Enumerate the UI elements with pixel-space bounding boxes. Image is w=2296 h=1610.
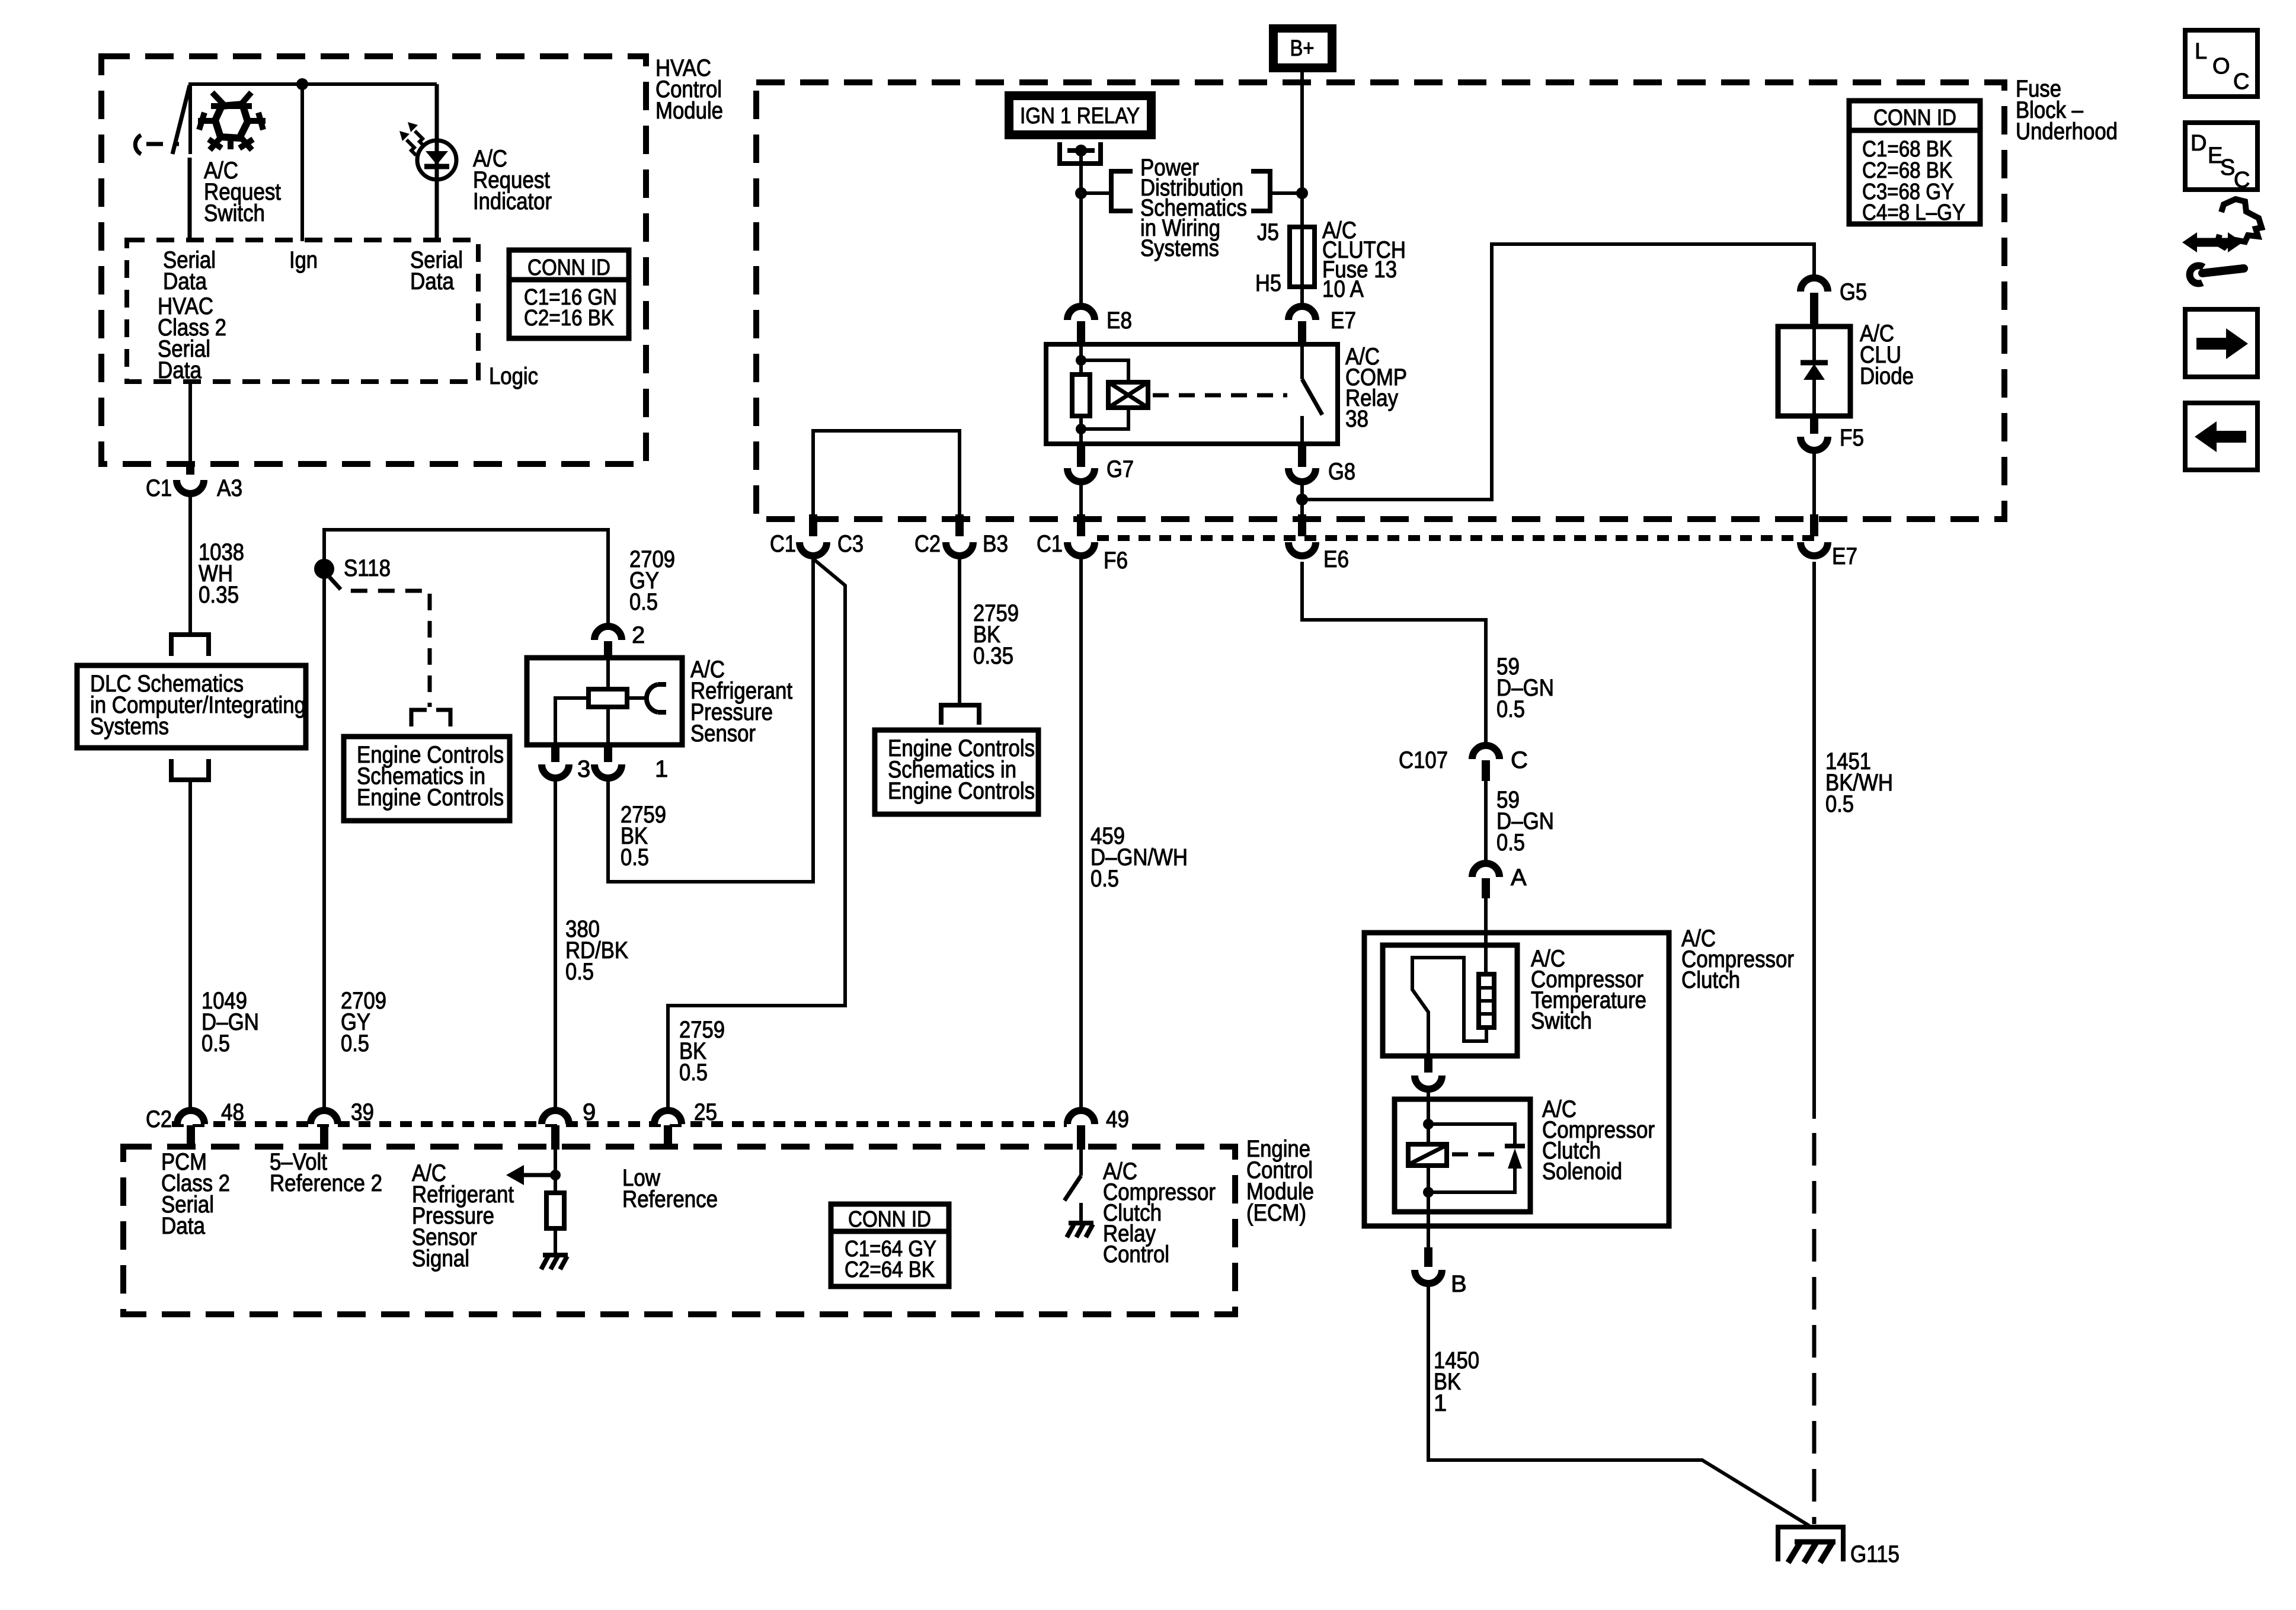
wire 459 D-GN/WH 0.5 bbox=[1081, 559, 1188, 1109]
svg-text:A: A bbox=[1511, 865, 1527, 891]
svg-text:Module: Module bbox=[655, 98, 723, 124]
icon forward arrow bbox=[2185, 309, 2257, 377]
svg-text:38: 38 bbox=[1345, 406, 1368, 432]
svg-text:0.5: 0.5 bbox=[1825, 791, 1854, 817]
svg-text:CONN ID: CONN ID bbox=[527, 255, 610, 280]
svg-text:C107: C107 bbox=[1399, 747, 1448, 773]
node Serial Data labels bbox=[158, 247, 463, 383]
connector C1 C3 bbox=[770, 514, 864, 557]
wire 59 D-GN 0.5 (C107 to A) bbox=[1486, 781, 1554, 863]
svg-text:C2: C2 bbox=[146, 1106, 172, 1132]
wire solenoid to B bbox=[1427, 1212, 1430, 1247]
svg-text:Reference 2: Reference 2 bbox=[270, 1170, 382, 1196]
svg-text:C: C bbox=[1511, 747, 1528, 773]
svg-text:H5: H5 bbox=[1255, 270, 1281, 296]
wire serial data down bbox=[188, 382, 192, 467]
wire F5 to E7 bbox=[1812, 450, 1816, 517]
wire 2759 BK 0.35 (B3) bbox=[960, 559, 1019, 705]
wire 2709 GY 0.5 (sensor pin 2) bbox=[629, 546, 675, 615]
svg-text:C3: C3 bbox=[837, 531, 864, 557]
wire 1450 BK 1 bbox=[1428, 1283, 1809, 1526]
svg-text:J5: J5 bbox=[1257, 219, 1279, 245]
svg-text:O: O bbox=[2212, 54, 2230, 79]
icon DESC bbox=[2185, 123, 2257, 193]
svg-text:L: L bbox=[2195, 39, 2207, 64]
IGN 1 relay output contact bbox=[1060, 142, 1101, 164]
connector pin 39 bbox=[311, 1099, 374, 1150]
wire top bus in HVAC bbox=[190, 84, 437, 154]
svg-text:Systems: Systems bbox=[90, 713, 169, 740]
svg-text:49: 49 bbox=[1106, 1106, 1129, 1132]
svg-text:G7: G7 bbox=[1107, 456, 1134, 482]
node junction G8/diode branch bbox=[1296, 494, 1308, 505]
svg-text:48: 48 bbox=[221, 1099, 244, 1125]
svg-text:S: S bbox=[2220, 155, 2235, 180]
connector (temp switch to solenoid) bbox=[1415, 1056, 1442, 1089]
svg-text:F6: F6 bbox=[1104, 548, 1128, 574]
connector B bbox=[1415, 1247, 1467, 1297]
svg-text:B: B bbox=[1451, 1271, 1467, 1297]
wire into solenoid bbox=[1427, 1089, 1430, 1145]
wire 1049 D-GN 0.5 bbox=[190, 780, 259, 1109]
svg-text:C1: C1 bbox=[146, 475, 172, 501]
connector pin 2 bbox=[594, 622, 645, 659]
svg-text:IGN 1 RELAY: IGN 1 RELAY bbox=[1020, 104, 1140, 129]
icon diagnostic pointer with wrench bbox=[2182, 199, 2262, 283]
connector pin 1 bbox=[594, 745, 668, 782]
svg-text:Control: Control bbox=[1103, 1241, 1169, 1267]
svg-text:Switch: Switch bbox=[1531, 1008, 1592, 1034]
ECM pin 9 internal circuit bbox=[506, 1150, 564, 1254]
svg-text:Diode: Diode bbox=[1860, 363, 1914, 389]
Engine Controls box (right) bbox=[875, 730, 1038, 814]
svg-text:CONN ID: CONN ID bbox=[1873, 105, 1956, 130]
ECM internal labels bbox=[161, 1149, 718, 1272]
CONN ID table HVAC bbox=[509, 250, 629, 338]
Fuse Block Underhood box bbox=[756, 76, 2118, 519]
svg-text:Underhood: Underhood bbox=[2016, 119, 2118, 145]
connector G5 bbox=[1801, 278, 1867, 327]
svg-text:C: C bbox=[2234, 168, 2250, 193]
connector pin 9 bbox=[542, 1099, 596, 1150]
wire B+ down bbox=[1300, 72, 1304, 227]
svg-text:Data: Data bbox=[410, 268, 455, 295]
wire 2709 GY 0.5 down to pin 39 bbox=[324, 569, 386, 1109]
ground (relay control) bbox=[1067, 1223, 1093, 1237]
relay coil box symbol bbox=[1108, 382, 1148, 408]
ground (ECM pin 9) bbox=[541, 1255, 568, 1269]
A/C compressor temperature switch bbox=[1383, 945, 1646, 1056]
A/C CLU Diode bbox=[1778, 321, 1914, 416]
connector F5 bbox=[1801, 416, 1864, 451]
svg-text:G5: G5 bbox=[1840, 279, 1867, 305]
fuse A/C CLUTCH Fuse 13 10A bbox=[1255, 217, 1406, 302]
wire C3 diagonal branch 2759 bbox=[668, 559, 845, 1109]
connector E8 bbox=[1067, 306, 1132, 344]
svg-text:Clutch: Clutch bbox=[1681, 967, 1740, 993]
connector C2 pin 48 bbox=[146, 1099, 244, 1150]
wire 2759 BK 0.5 (pin 1 to C3) bbox=[608, 559, 813, 882]
svg-text:B3: B3 bbox=[983, 531, 1008, 557]
svg-text:F5: F5 bbox=[1840, 425, 1864, 451]
svg-text:Switch: Switch bbox=[204, 200, 265, 226]
svg-text:D: D bbox=[2191, 131, 2207, 156]
Engine Controls box (left) bbox=[344, 737, 510, 821]
node junction left bbox=[1075, 187, 1087, 199]
connector G8 bbox=[1288, 444, 1355, 485]
A/C compressor clutch solenoid bbox=[1395, 1096, 1655, 1212]
svg-text:Indicator: Indicator bbox=[473, 188, 552, 215]
svg-text:E8: E8 bbox=[1107, 308, 1132, 334]
svg-text:0.5: 0.5 bbox=[621, 844, 649, 870]
svg-text:G115: G115 bbox=[1850, 1541, 1900, 1567]
connector E7 (fuse block bottom) bbox=[1801, 514, 1857, 569]
wire to left bracket bbox=[1081, 191, 1111, 195]
svg-text:Sensor: Sensor bbox=[690, 721, 756, 747]
svg-text:0.5: 0.5 bbox=[1496, 830, 1525, 856]
svg-text:0.5: 0.5 bbox=[565, 959, 594, 985]
in-line connector dotted line (ECM row) bbox=[172, 1121, 1067, 1127]
wire 1451 dashed to ground bbox=[1812, 1133, 1817, 1524]
IGN 1 RELAY box bbox=[1005, 91, 1156, 139]
svg-text:3: 3 bbox=[577, 756, 590, 782]
svg-text:E7: E7 bbox=[1832, 543, 1857, 569]
svg-text:Data: Data bbox=[163, 268, 207, 295]
B+ power symbol bbox=[1269, 24, 1336, 72]
A/C refrigerant pressure sensor bbox=[527, 657, 792, 747]
svg-text:Engine Controls: Engine Controls bbox=[357, 785, 504, 811]
relay coil circuit bbox=[1072, 344, 1128, 444]
Engine Control Module box bbox=[123, 1136, 1314, 1314]
svg-text:0.5: 0.5 bbox=[679, 1060, 708, 1086]
svg-text:B+: B+ bbox=[1290, 36, 1315, 61]
A/C COMP Relay 38 box bbox=[1046, 344, 1407, 444]
svg-text:2: 2 bbox=[632, 622, 645, 648]
wire 1451 BK/WH 0.5 bbox=[1814, 562, 1893, 1119]
wire 380 RD/BK 0.5 bbox=[555, 778, 628, 1109]
off-page bracket (B3) bbox=[941, 705, 979, 725]
Logic box bbox=[127, 240, 538, 389]
wire fuse to E7 bbox=[1300, 287, 1304, 311]
CONN ID table fuse block bbox=[1849, 101, 1980, 225]
wire A to temperature switch bbox=[1484, 898, 1488, 975]
svg-text:C4=8 L–GY: C4=8 L–GY bbox=[1862, 200, 1965, 225]
svg-text:9: 9 bbox=[583, 1099, 596, 1125]
connector C2 B3 bbox=[914, 514, 1008, 557]
svg-text:25: 25 bbox=[694, 1099, 717, 1125]
svg-text:Solenoid: Solenoid bbox=[1542, 1158, 1622, 1185]
icon LOC bbox=[2185, 30, 2257, 97]
CONN ID table ECM bbox=[831, 1204, 949, 1286]
connector E6 bbox=[1288, 514, 1349, 572]
ECM pin 49 switch to ground bbox=[1064, 1150, 1216, 1267]
A/C request switch bbox=[135, 85, 281, 241]
svg-text:E6: E6 bbox=[1323, 546, 1349, 572]
svg-text:Data: Data bbox=[161, 1213, 206, 1239]
svg-text:G8: G8 bbox=[1328, 459, 1355, 485]
svg-text:1: 1 bbox=[655, 756, 668, 782]
wire 2759 BK 0.5 label (to pin 25) bbox=[679, 1017, 725, 1086]
svg-text:Signal: Signal bbox=[412, 1246, 469, 1272]
svg-text:Systems: Systems bbox=[1140, 235, 1219, 261]
wire S118 horizontal to sensor column bbox=[324, 530, 608, 628]
svg-text:C2=16 BK: C2=16 BK bbox=[524, 306, 614, 331]
svg-text:39: 39 bbox=[351, 1099, 374, 1125]
relay switch contact bbox=[1302, 344, 1322, 444]
wire 1038 WH 0.35 bbox=[190, 494, 244, 635]
connector pin 3 bbox=[542, 745, 590, 782]
connector G7 bbox=[1067, 444, 1134, 482]
wire 59 D-GN 0.5 (E6 to C107) bbox=[1302, 562, 1554, 745]
connector E7 (relay) bbox=[1288, 306, 1356, 344]
svg-text:Ign: Ign bbox=[289, 247, 318, 273]
svg-text:E7: E7 bbox=[1331, 308, 1356, 334]
svg-text:Engine Controls: Engine Controls bbox=[888, 778, 1035, 804]
svg-text:0.5: 0.5 bbox=[629, 589, 658, 615]
svg-text:C2=64 BK: C2=64 BK bbox=[845, 1257, 935, 1282]
svg-text:1: 1 bbox=[1434, 1390, 1447, 1416]
svg-text:0.5: 0.5 bbox=[341, 1030, 369, 1057]
connector C1 A3 bbox=[146, 464, 242, 501]
splice bus C3-B3 inside fuse block bbox=[813, 431, 960, 517]
ground G115 bbox=[1778, 1527, 1900, 1567]
off-page bracket above DLC bbox=[171, 635, 209, 656]
svg-text:0.35: 0.35 bbox=[973, 643, 1013, 669]
connector pin 25 bbox=[654, 1099, 717, 1150]
connector C1 F6 bbox=[1037, 514, 1128, 574]
connector pin 49 bbox=[1067, 1106, 1129, 1150]
dashed branch from S118 bbox=[330, 577, 450, 726]
A/C Compressor Clutch box bbox=[1364, 926, 1794, 1226]
svg-text:(ECM): (ECM) bbox=[1246, 1200, 1306, 1226]
power distribution reference brackets bbox=[1111, 155, 1270, 261]
wire G8 to E6 bbox=[1300, 482, 1304, 517]
svg-text:0.5: 0.5 bbox=[1091, 866, 1119, 892]
HVAC Control Module box bbox=[101, 55, 723, 464]
svg-text:Data: Data bbox=[158, 357, 202, 383]
svg-text:C: C bbox=[2233, 69, 2249, 94]
wire Ign bbox=[300, 84, 304, 241]
connector C107 C bbox=[1399, 745, 1528, 781]
icon back arrow bbox=[2185, 403, 2257, 470]
wire G7 to F6 bbox=[1079, 482, 1083, 517]
wire ign relay down bbox=[1079, 151, 1083, 311]
svg-text:C1: C1 bbox=[770, 531, 796, 557]
node junction at Ign bbox=[296, 78, 308, 90]
svg-text:A3: A3 bbox=[217, 475, 242, 501]
wire bracket to B+ line bbox=[1270, 191, 1302, 195]
connector A bbox=[1472, 863, 1527, 898]
A/C request indicator LED bbox=[399, 84, 552, 241]
svg-text:10 A: 10 A bbox=[1322, 276, 1364, 302]
svg-text:Reference: Reference bbox=[622, 1186, 718, 1212]
svg-text:Logic: Logic bbox=[489, 363, 538, 389]
wire to A/C CLU diode bbox=[1302, 244, 1814, 500]
DLC Schematics box bbox=[77, 665, 306, 748]
svg-text:S118: S118 bbox=[344, 555, 391, 581]
svg-text:0.35: 0.35 bbox=[199, 582, 239, 608]
in-line connector dotted line (fuse row) bbox=[1097, 535, 1814, 541]
splice S118 bbox=[314, 555, 391, 581]
snowflake icon bbox=[198, 92, 266, 150]
svg-text:C2: C2 bbox=[914, 531, 941, 557]
node junction right bbox=[1296, 187, 1308, 199]
svg-text:CONN ID: CONN ID bbox=[848, 1207, 931, 1232]
relay actuation dashed link bbox=[1153, 393, 1287, 398]
svg-text:C1: C1 bbox=[1037, 531, 1063, 557]
svg-text:0.5: 0.5 bbox=[1496, 696, 1525, 722]
svg-text:0.5: 0.5 bbox=[202, 1030, 230, 1057]
off-page bracket below DLC bbox=[171, 759, 209, 780]
